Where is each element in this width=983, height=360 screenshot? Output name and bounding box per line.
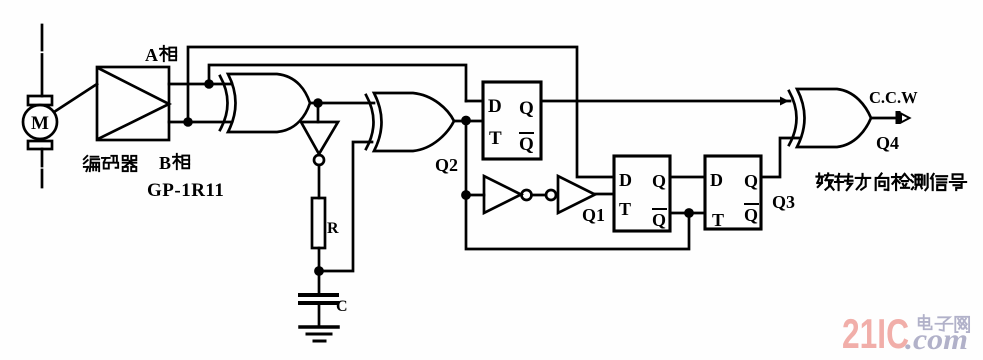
svg-text:M: M — [31, 113, 49, 134]
svg-text:Q: Q — [652, 210, 666, 230]
svg-text:Q3: Q3 — [772, 192, 795, 212]
svg-text:D: D — [710, 170, 723, 190]
svg-text:Q: Q — [744, 171, 758, 191]
svg-text:D: D — [619, 170, 632, 190]
svg-text:Q2: Q2 — [435, 155, 458, 175]
svg-text:C: C — [336, 298, 348, 315]
svg-text:D: D — [488, 96, 502, 117]
svg-text:T: T — [712, 210, 724, 230]
svg-text:21IC: 21IC — [842, 310, 909, 357]
svg-text:C.C.W: C.C.W — [869, 88, 918, 107]
svg-text:Q: Q — [652, 171, 666, 191]
svg-text:Q: Q — [519, 134, 534, 155]
svg-text:Q: Q — [519, 98, 534, 119]
svg-text:T: T — [619, 199, 631, 219]
svg-text:Q4: Q4 — [876, 133, 899, 153]
svg-text:A: A — [145, 45, 158, 65]
svg-text:GP-1R11: GP-1R11 — [147, 180, 224, 201]
svg-text:T: T — [489, 128, 502, 149]
svg-text:R: R — [327, 220, 339, 237]
svg-text:Q1: Q1 — [582, 205, 605, 225]
svg-text:B: B — [159, 153, 171, 173]
svg-text:Q: Q — [744, 205, 758, 225]
